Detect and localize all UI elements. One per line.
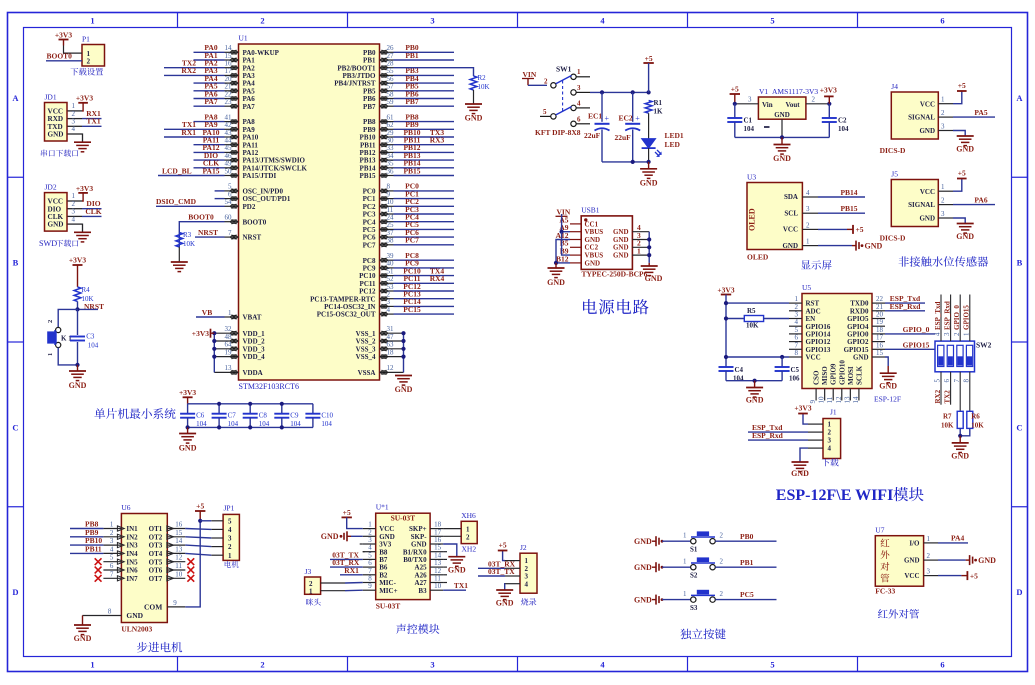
svg-text:16: 16	[175, 521, 183, 529]
stubs B1 B0 A25 A26 A27	[443, 551, 447, 553]
svg-text:10: 10	[434, 582, 442, 590]
svg-text:104: 104	[88, 341, 99, 349]
connector J3 mic	[305, 577, 321, 594]
no-connect IN7	[95, 575, 102, 582]
wire PA3	[164, 74, 225, 76]
svg-text:2: 2	[828, 429, 832, 437]
ground J1	[800, 448, 808, 462]
svg-text:U3: U3	[747, 173, 756, 182]
svg-text:VSS_3: VSS_3	[356, 345, 376, 353]
svg-text:1: 1	[941, 96, 945, 104]
svg-text:VCC: VCC	[920, 188, 935, 196]
svg-text:+5: +5	[196, 502, 204, 511]
ground J5	[953, 218, 965, 224]
ground esp caps	[754, 381, 756, 388]
svg-text:+5: +5	[958, 81, 966, 90]
wire JD2 pin1 to +3V3	[82, 193, 83, 201]
wire PB1	[394, 59, 455, 61]
svg-text:+5: +5	[731, 85, 739, 94]
power +5 J2	[503, 551, 505, 561]
svg-text:GND: GND	[634, 595, 652, 604]
capacitor C4 104	[719, 366, 734, 368]
wire PB15	[818, 212, 865, 214]
wire PC5	[715, 599, 776, 601]
capacitor C3 104	[77, 309, 79, 335]
svg-text:C7: C7	[228, 412, 237, 420]
svg-text:J3: J3	[305, 567, 312, 576]
wire SW1 pin3 to power rail	[590, 91, 649, 93]
svg-text:3: 3	[228, 535, 232, 543]
wire PB11	[70, 552, 103, 554]
wire PA6	[953, 204, 995, 206]
wire to button K1	[58, 309, 77, 327]
U1 pin 24 PC4	[380, 221, 394, 223]
svg-text:3: 3	[941, 210, 945, 218]
wire PB4	[394, 82, 455, 84]
svg-text:3: 3	[828, 437, 832, 445]
stub B8	[363, 551, 365, 553]
wire GPIO_0	[885, 333, 935, 335]
svg-text:GND: GND	[395, 385, 413, 394]
resistor R7 10K	[957, 411, 963, 428]
U1 pin 64 VDD_3	[214, 348, 238, 350]
svg-text:PC15: PC15	[403, 305, 421, 314]
wire ESP_Rxd J1	[748, 439, 808, 441]
svg-text:PB11: PB11	[85, 544, 102, 553]
wire JP1 pin5 to +5	[200, 520, 211, 522]
svg-text:LED1: LED1	[665, 131, 684, 140]
svg-text:ESP_Rxd: ESP_Rxd	[752, 431, 784, 440]
U1 pin 27 PB1	[380, 59, 394, 61]
label mic head	[306, 598, 321, 605]
no-connect IN5	[95, 558, 102, 565]
svg-text:1: 1	[309, 588, 313, 596]
svg-text:10K: 10K	[478, 83, 490, 91]
resistor R3 10K	[176, 232, 183, 247]
svg-text:48: 48	[225, 333, 233, 341]
svg-text:GND: GND	[448, 566, 466, 575]
svg-text:1: 1	[683, 532, 687, 540]
wire PB11	[394, 144, 455, 146]
svg-text:10K: 10K	[183, 240, 195, 248]
wire PB9	[70, 536, 103, 538]
svg-text:3: 3	[748, 96, 752, 104]
connector JP1 motor	[223, 514, 239, 560]
U1 pin 53 PC12	[380, 290, 394, 292]
svg-text:J2: J2	[520, 543, 527, 552]
svg-text:5: 5	[228, 517, 232, 525]
switch SW1 KFT DIP-8X8	[551, 83, 556, 88]
ground USB left	[548, 267, 565, 269]
svg-text:VIN: VIN	[523, 70, 537, 79]
svg-text:VBUS: VBUS	[585, 228, 604, 236]
svg-text:VIN: VIN	[557, 208, 571, 217]
svg-text:3: 3	[943, 332, 951, 336]
capacitor C9 104	[281, 404, 283, 414]
wire VCC	[726, 356, 789, 358]
svg-text:14: 14	[175, 537, 183, 545]
ground J2	[504, 584, 506, 590]
wire gnd bus V1	[735, 136, 830, 138]
svg-text:2: 2	[110, 529, 114, 537]
svg-text:1: 1	[637, 247, 641, 256]
svg-text:5: 5	[110, 554, 114, 562]
svg-text:J1: J1	[830, 408, 837, 417]
svg-text:PC15-OSC32_OUT: PC15-OSC32_OUT	[317, 311, 376, 319]
U1 pin 12 VSSA	[380, 371, 404, 373]
svg-text:22uF: 22uF	[584, 131, 601, 140]
U1 pin 44 PA11	[225, 144, 239, 146]
svg-text:7: 7	[110, 570, 114, 578]
svg-text:+3V3: +3V3	[794, 404, 811, 413]
wire PA8	[194, 121, 225, 123]
U1 pin 21 PA5	[225, 90, 239, 92]
svg-text:IN5: IN5	[126, 558, 138, 566]
svg-text:BOOT0: BOOT0	[47, 52, 73, 61]
svg-text:2: 2	[260, 660, 264, 670]
svg-text:13: 13	[225, 364, 233, 372]
svg-text:2: 2	[941, 197, 945, 205]
wire PB15	[394, 175, 455, 177]
wire 03T_RX J2	[478, 567, 505, 569]
U1 pin 30 PB11	[380, 144, 394, 146]
svg-text:PB15: PB15	[403, 166, 420, 175]
ground JD2 pin4	[81, 224, 84, 232]
svg-text:5: 5	[543, 108, 547, 116]
wire PC2	[394, 205, 455, 207]
svg-text:64: 64	[225, 341, 233, 349]
wire TX1	[82, 125, 102, 127]
connector J5 DICS-D	[891, 180, 938, 227]
svg-text:104: 104	[196, 420, 207, 428]
infrared U7 FC-33	[875, 536, 923, 587]
mcu U1 STM32F103RCT6	[239, 44, 380, 380]
svg-text:+3V3: +3V3	[179, 388, 196, 397]
ground K1	[75, 363, 79, 367]
wire PC4	[394, 221, 455, 223]
U1 pin 46 PA13/JTMS/SWDIO	[225, 159, 239, 161]
svg-text:LCD_BL: LCD_BL	[162, 166, 192, 175]
svg-text:+5: +5	[343, 508, 351, 517]
svg-text:PB1: PB1	[405, 51, 419, 60]
U1 pin 28 PB2/BOOT1	[380, 67, 394, 69]
svg-text:4: 4	[72, 215, 76, 223]
svg-text:+5: +5	[645, 54, 653, 63]
U1 pin 58 PB6	[380, 98, 394, 100]
svg-text:PB1: PB1	[740, 558, 754, 567]
svg-text:4: 4	[577, 100, 581, 108]
wire J3 to MIC+	[321, 590, 345, 592]
ground U7	[938, 559, 966, 561]
svg-text:36: 36	[387, 167, 395, 175]
VDD power bus wire	[213, 333, 215, 372]
svg-text:GND: GND	[956, 232, 974, 241]
svg-text:C10: C10	[321, 412, 333, 420]
svg-text:1: 1	[228, 552, 232, 560]
svg-text:GND: GND	[879, 382, 897, 391]
power gnd bus wire	[602, 161, 649, 163]
U1 pin 25 PC5	[380, 228, 394, 230]
svg-text:C: C	[12, 422, 18, 432]
U1 pin 16 PA2	[225, 67, 239, 69]
svg-text:VSSA: VSSA	[358, 369, 376, 377]
svg-text:8: 8	[795, 349, 799, 357]
wire PB1	[715, 566, 776, 568]
button K1	[56, 327, 61, 332]
svg-text:104: 104	[744, 125, 755, 133]
wire PA4	[938, 542, 968, 544]
svg-text:RX2: RX2	[934, 389, 942, 403]
svg-text:J4: J4	[891, 82, 898, 91]
svg-text:1: 1	[47, 353, 54, 356]
U1 pin 29 PB10	[380, 136, 394, 138]
dip switch SW2	[935, 341, 975, 372]
svg-text:12: 12	[175, 554, 183, 562]
svg-text:10K: 10K	[746, 322, 759, 330]
wire GND pins to ground left	[556, 240, 570, 264]
wire SKP- to XH6	[443, 535, 461, 537]
wire gnd to S1	[662, 540, 691, 542]
connector J1 download	[823, 419, 841, 459]
svg-text:ESP_Rxd: ESP_Rxd	[943, 301, 951, 330]
svg-text:2: 2	[260, 16, 264, 26]
svg-text:GND: GND	[48, 221, 64, 229]
U1 pin 42 PA9	[225, 128, 239, 130]
svg-text:MOSI: MOSI	[847, 366, 855, 385]
svg-text:PB15: PB15	[360, 172, 376, 180]
wire PB3	[394, 74, 455, 76]
svg-text:BOOT0: BOOT0	[243, 218, 267, 226]
ground JD1 pin4	[81, 134, 84, 142]
wire LCD_BL PA15	[158, 175, 225, 177]
wire OSC_OUT stub	[215, 198, 225, 200]
svg-text:5: 5	[770, 16, 774, 26]
wire gnd to S3	[662, 599, 691, 601]
svg-text:4: 4	[525, 580, 529, 588]
svg-text:SCLK: SCLK	[855, 365, 863, 385]
U1 pin 40 PC9	[380, 267, 394, 269]
wire PB14	[394, 167, 455, 169]
wire PA0	[194, 51, 225, 53]
svg-text:VBAT: VBAT	[243, 314, 262, 322]
svg-text:C9: C9	[290, 412, 299, 420]
svg-text:14: 14	[852, 396, 860, 404]
header P1 download setting	[82, 45, 105, 67]
cap bus bottom wire	[188, 426, 313, 428]
svg-text:C4: C4	[735, 366, 744, 374]
svg-text:GND: GND	[978, 556, 996, 565]
svg-text:2: 2	[720, 532, 724, 540]
U1 pin 2 PC13-TAMPER-RTC	[380, 298, 394, 300]
wire RST	[726, 302, 789, 304]
wire PB6	[394, 98, 455, 100]
svg-text:1: 1	[683, 590, 687, 598]
svg-text:USB1: USB1	[581, 206, 600, 215]
ground USB right	[648, 263, 650, 266]
U1 pin 43 PA10	[225, 136, 239, 138]
title non-contact water sensor	[899, 256, 989, 266]
svg-text:SW2: SW2	[976, 341, 992, 350]
resistor R4 10K	[74, 287, 81, 302]
svg-text:54: 54	[225, 198, 233, 206]
svg-text:03T_TX: 03T_TX	[488, 567, 515, 576]
svg-text:P1: P1	[82, 35, 90, 44]
svg-text:4: 4	[806, 189, 810, 197]
title independent buttons	[680, 629, 725, 640]
capacitor EC2 22uF	[632, 92, 634, 121]
svg-text:GND: GND	[69, 381, 87, 390]
U1 pin 5 OSC_IN/PD0	[225, 190, 239, 192]
title stepper motor	[137, 642, 182, 653]
JD2 pin 2	[68, 208, 83, 210]
svg-text:VBUS: VBUS	[585, 252, 604, 260]
svg-text:PA7: PA7	[204, 97, 217, 106]
svg-text:GND: GND	[746, 396, 764, 405]
svg-text:4: 4	[228, 526, 232, 534]
svg-text:1: 1	[90, 660, 94, 670]
svg-text:RX3: RX3	[430, 136, 445, 145]
svg-text:3: 3	[927, 568, 931, 576]
connector J2 program	[520, 553, 537, 593]
svg-text:1: 1	[941, 183, 945, 191]
U1 pin 38 PC7	[380, 244, 394, 246]
U1 pin 13 VDDA	[214, 371, 238, 373]
svg-text:J5: J5	[891, 170, 898, 179]
svg-text:TX1: TX1	[454, 581, 468, 590]
svg-text:11: 11	[826, 396, 834, 403]
U1 pin 34 PB13	[380, 159, 394, 161]
svg-text:13: 13	[843, 396, 851, 404]
svg-text:+: +	[635, 114, 640, 123]
svg-text:8: 8	[962, 379, 970, 383]
wire +5 to Vin	[735, 103, 759, 105]
svg-text:VCC: VCC	[920, 100, 935, 108]
svg-text:GND: GND	[613, 228, 629, 236]
wire VB	[196, 316, 225, 318]
svg-text:COM: COM	[144, 603, 162, 612]
svg-text:IN1: IN1	[126, 525, 138, 533]
no-connect OT5	[187, 558, 194, 565]
svg-text:GND: GND	[74, 634, 92, 643]
svg-text:1: 1	[577, 68, 581, 76]
svg-text:VSS_1: VSS_1	[356, 330, 376, 338]
svg-text:11: 11	[175, 562, 182, 570]
no-connect OT7	[187, 575, 194, 582]
U1 pin 49 PA14/JTCK/SWCLK	[225, 167, 239, 169]
svg-text:SCL: SCL	[784, 209, 798, 217]
svg-text:2: 2	[87, 58, 91, 66]
wire 03T_TX	[330, 558, 363, 560]
svg-text:OT4: OT4	[149, 550, 163, 558]
U1 pin 15 PA1	[225, 59, 239, 61]
svg-text:R1: R1	[654, 99, 663, 107]
label motor	[225, 561, 239, 568]
wire RX1	[82, 118, 102, 120]
wire PB0	[394, 51, 455, 53]
wire PA1	[194, 59, 225, 61]
svg-text:RX1: RX1	[181, 128, 196, 137]
U1 pin 57 PB5	[380, 90, 394, 92]
svg-text:SW1: SW1	[556, 65, 572, 74]
svg-text:GPIO_0: GPIO_0	[903, 325, 930, 334]
wire VIN to VBUS pins	[562, 231, 570, 233]
svg-text:3: 3	[430, 16, 434, 26]
wire PA12	[194, 151, 225, 153]
svg-text:VDD_2: VDD_2	[243, 338, 266, 346]
svg-text:8: 8	[108, 608, 112, 616]
U1 pin 3 PC14-OSC32_IN	[380, 305, 394, 307]
svg-text:I/O: I/O	[909, 540, 920, 548]
svg-text:7: 7	[228, 229, 232, 237]
svg-text:4: 4	[387, 306, 391, 314]
svg-text:OT2: OT2	[149, 533, 163, 541]
wire RX1 voice	[340, 574, 363, 576]
svg-text:63: 63	[387, 341, 395, 349]
svg-text:IN7: IN7	[126, 575, 138, 583]
svg-text:PA6: PA6	[974, 196, 987, 205]
svg-text:3: 3	[430, 660, 434, 670]
svg-text:DSIO_CMD: DSIO_CMD	[156, 197, 197, 206]
svg-text:OT1: OT1	[149, 525, 163, 533]
wire DSIO_CMD	[156, 205, 225, 207]
svg-text:XH6: XH6	[461, 511, 476, 520]
svg-text:GPIO15: GPIO15	[963, 305, 971, 330]
LED1	[648, 113, 650, 138]
driver U6 ULN2003	[121, 514, 167, 623]
svg-text:ESP-12F\E WIFI: ESP-12F\E WIFI	[776, 487, 894, 504]
svg-text:C5: C5	[791, 366, 800, 374]
wire NRST	[195, 236, 225, 238]
svg-text:C2: C2	[838, 117, 847, 125]
wire VIN to SW1 pin2	[528, 84, 547, 86]
svg-text:GND: GND	[865, 241, 883, 250]
svg-text:9: 9	[368, 582, 372, 590]
svg-text:2: 2	[466, 533, 470, 541]
svg-text:+3V3: +3V3	[820, 86, 837, 95]
svg-text:BOOT0: BOOT0	[188, 213, 214, 222]
wire PA5	[953, 116, 995, 118]
wire PA7	[194, 105, 225, 107]
U1 pin 63 VSS_3	[380, 348, 404, 350]
U1 pin 62 PB9	[380, 128, 394, 130]
wire Vout to +3V3	[806, 103, 829, 105]
svg-text:D: D	[1016, 587, 1022, 597]
wire 03T_TX J2	[478, 575, 505, 577]
svg-text:PC5: PC5	[740, 590, 754, 599]
svg-text:GND: GND	[465, 114, 483, 123]
svg-text:GND: GND	[919, 127, 935, 135]
svg-text:+3V3: +3V3	[192, 329, 209, 338]
U1 pin 10 PC2	[380, 205, 394, 207]
svg-text:1: 1	[90, 16, 94, 26]
svg-text:60: 60	[225, 214, 233, 222]
svg-text:3: 3	[110, 537, 114, 545]
wire PA10	[164, 136, 225, 138]
U1 pin 33 PB12	[380, 151, 394, 153]
capacitor C6 104	[187, 404, 189, 414]
power +5 J5	[953, 179, 962, 192]
JD2 pin 4	[68, 223, 83, 225]
svg-text:CC2: CC2	[585, 244, 599, 252]
wire ESP_Rxd	[885, 310, 925, 312]
U1 pin 1 VBAT	[225, 316, 239, 318]
svg-text:1K: 1K	[654, 108, 664, 116]
wire CLK	[194, 167, 225, 169]
svg-text:MISO: MISO	[821, 366, 829, 385]
wire TX1 voice	[443, 589, 466, 591]
svg-text:3: 3	[577, 84, 581, 92]
U1 pin 41 PA8	[225, 121, 239, 123]
